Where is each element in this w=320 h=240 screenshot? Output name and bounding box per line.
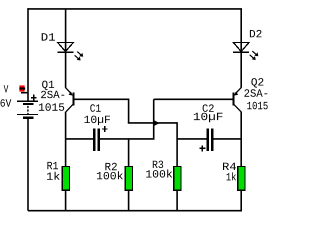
wire Q1 base horizontal to R3 [128, 122, 177, 124]
LED D1 light arrows [75, 52, 84, 61]
LED D2 triangle [233, 42, 249, 52]
label R3 value 100k [146, 169, 172, 177]
resistor R2 [125, 167, 132, 191]
label 6V [1, 99, 12, 107]
label R4 [223, 163, 236, 170]
battery cell symbol 6V [17, 101, 38, 118]
resistor R3 [174, 167, 181, 191]
label C1 [90, 104, 100, 112]
wire C2 right [213, 138, 241, 140]
wire battery bottom to rail [27, 119, 29, 211]
label R1 value 1k [47, 172, 60, 180]
label Q1 [42, 81, 54, 90]
label V [4, 85, 9, 92]
resistor R1 [62, 167, 69, 191]
wire R2 bottom [128, 190, 130, 210]
capacitor C2 plates [208, 129, 213, 151]
label Q1 part 2SA- [41, 91, 64, 99]
label Q1 part 1015 [39, 103, 64, 111]
wire R2 tap down [128, 139, 130, 167]
wire probe stub [21, 92, 28, 94]
wire R1 bottom [65, 190, 67, 210]
label R4 value 1k [227, 172, 237, 180]
capacitor C2 plus sign [200, 146, 206, 152]
wire R3 column [176, 122, 178, 167]
label Q2 part 2SA- [244, 89, 267, 97]
wire top rail +V [28, 8, 242, 10]
label Q2 part 1015 [247, 102, 267, 110]
wire D2 anode column [240, 9, 242, 88]
label C1 value 10uF [84, 116, 110, 126]
probe marker black stripe [19, 87, 25, 89]
label C2 value 10uF [194, 113, 223, 123]
transistor Q1 2SA1015 [66, 88, 74, 112]
wire C1 left [66, 138, 94, 140]
capacitor C1 plates [94, 129, 99, 151]
wire battery top [27, 8, 29, 101]
label D2 [250, 30, 262, 37]
wire D1 anode column [65, 9, 67, 88]
wire R4 bottom [240, 190, 242, 210]
label R2 value 100k [97, 171, 123, 179]
transistor Q2 2SA1015 [234, 88, 242, 112]
label R3 [153, 161, 163, 169]
wire node vertical C1 to Q2 base [153, 99, 155, 139]
capacitor C1 plus sign [102, 126, 108, 132]
label R1 [47, 162, 58, 169]
wire C1 right to node [100, 138, 155, 140]
LED D2 light arrows [250, 51, 259, 60]
wire Q1 base to corner [74, 99, 129, 123]
wire Q2 collector column [240, 112, 242, 167]
wire R3 bottom [176, 190, 178, 210]
LED D1 triangle [57, 42, 73, 52]
resistor R4 [238, 167, 245, 191]
wire Q2 base horizontal [154, 98, 233, 100]
battery plus sign [31, 95, 37, 101]
wire Q1 collector column [65, 112, 67, 168]
wire bottom rail ground [28, 210, 242, 212]
node junction arrow at crossing [154, 120, 159, 125]
probe marker red block [19, 85, 24, 91]
label Q2 [251, 78, 263, 87]
label R2 [105, 163, 116, 170]
label C2 [203, 104, 214, 112]
wire C2 left [177, 138, 207, 140]
battery dashed cells link [27, 106, 29, 114]
label D1 [42, 33, 55, 40]
